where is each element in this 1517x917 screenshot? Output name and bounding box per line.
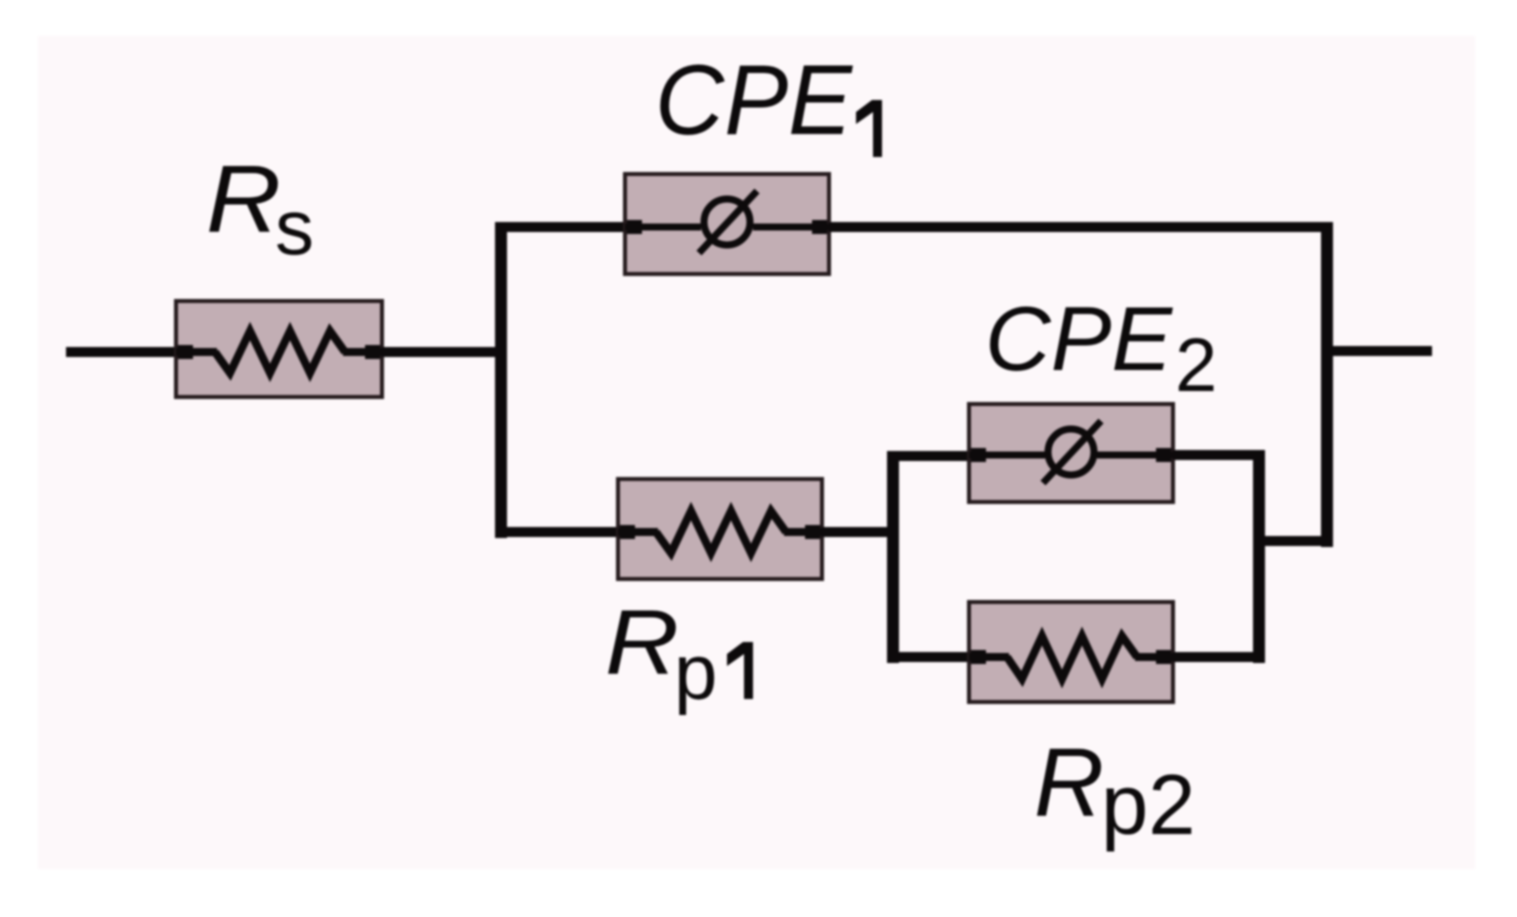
wire: right vertical bus — [1321, 222, 1333, 547]
wire: left input lead — [66, 347, 191, 357]
terminal node right of R_s — [365, 345, 380, 359]
terminal node left of R_p2 — [971, 650, 986, 664]
svg-text:R: R — [206, 146, 281, 253]
wire: CPE_2 branch left segment — [887, 451, 974, 461]
resistor R_s lead wires inside box — [176, 348, 382, 356]
wire: output lead — [1327, 346, 1432, 356]
terminal node right of R_p1 — [805, 525, 820, 539]
svg-text:CPE: CPE — [985, 289, 1173, 390]
resistor R_p2 lead wires inside box — [969, 653, 1173, 661]
wire: CPE_2 branch right segment — [1173, 450, 1265, 460]
CPE_1 lead wires inside box — [625, 224, 829, 231]
svg-text:R: R — [605, 592, 679, 694]
terminal node left of R_p1 — [620, 525, 635, 539]
CPE_2 phase symbol slash — [1043, 421, 1101, 483]
resistor R_p1 zigzag — [656, 511, 786, 553]
CPE_1 phase symbol circle — [704, 199, 750, 245]
label CPE_2 — [985, 289, 1217, 408]
wire: top branch left segment — [495, 222, 630, 232]
label R_p2 — [1034, 728, 1196, 853]
svg-text:p2: p2 — [1101, 758, 1196, 853]
wire: bottom branch left segment — [495, 527, 624, 537]
resistor R_p2 box — [969, 602, 1173, 702]
resistor R_p2 zigzag — [1007, 636, 1137, 679]
CPE element CPE_2 box — [969, 404, 1173, 502]
resistor R_s box — [176, 301, 382, 397]
terminal node right of CPE_2 — [1156, 448, 1171, 462]
terminal node left of CPE_1 — [627, 220, 642, 234]
label R_p1 — [605, 592, 753, 716]
svg-text:CPE: CPE — [655, 44, 853, 155]
wire: R_s to left junction — [382, 347, 507, 357]
wire: top branch right segment — [829, 222, 1332, 232]
resistor R_p1 lead wires inside box — [618, 528, 822, 536]
wire: R_p2 branch left segment — [887, 652, 974, 662]
terminal node left of R_s — [178, 345, 193, 359]
CPE_2 phase symbol circle — [1048, 429, 1094, 475]
label R_s — [206, 146, 314, 271]
svg-text:p: p — [674, 628, 717, 716]
svg-text:2: 2 — [1175, 323, 1217, 408]
resistor R_s zigzag — [215, 331, 345, 373]
wire: R_p1 to parallel pair — [822, 527, 899, 537]
svg-text:R: R — [1034, 728, 1104, 837]
terminal node left of CPE_2 — [971, 448, 986, 462]
label CPE_1 — [655, 44, 882, 157]
CPE_1 phase symbol slash — [699, 191, 757, 253]
CPE element CPE_1 box — [625, 174, 829, 274]
wire: left vertical branch riser — [495, 227, 507, 538]
CPE_2 lead wires inside box — [969, 452, 1173, 459]
resistor R_p1 box — [618, 479, 822, 579]
wire: parallel pair left vertical — [887, 452, 899, 663]
svg-text:s: s — [275, 183, 314, 271]
terminal node right of R_p2 — [1156, 650, 1171, 664]
terminal node right of CPE_1 — [812, 220, 827, 234]
wire: R_p2 branch right segment — [1173, 652, 1265, 662]
wire: parallel pair right vertical — [1253, 452, 1265, 663]
wire: stub to right bus — [1253, 536, 1333, 546]
